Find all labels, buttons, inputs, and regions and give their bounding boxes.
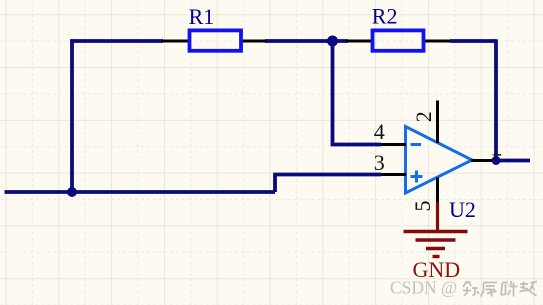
resistor R1 — [161, 30, 266, 50]
svg-text:5: 5 — [410, 201, 435, 212]
svg-text:3: 3 — [374, 150, 385, 175]
svg-text:R1: R1 — [189, 4, 215, 29]
wire: between R1 right pin and R2 left pin — [265, 39, 348, 43]
resistor R2 — [346, 30, 450, 50]
junction: R1/R2 node to pin 4 branch — [327, 36, 338, 47]
output pin — [471, 159, 492, 162]
wire: from R2 right pin to right corner — [450, 39, 496, 43]
svg-text:CSDN @: CSDN @ — [390, 278, 457, 298]
ground GND — [404, 202, 468, 257]
svg-text:R2: R2 — [372, 4, 398, 29]
svg-text:U2: U2 — [449, 197, 476, 222]
wire: bottom horizontal input net — [5, 190, 276, 194]
no-ERC marker above output node — [492, 154, 501, 156]
wire: left vertical from top corner down to bottom net — [70, 39, 74, 192]
junction: bottom net / left vertical — [67, 187, 77, 197]
op-amp U2 — [406, 127, 473, 194]
pin 5 (negative supply) — [436, 178, 439, 204]
wire: right vertical feedback down to output — [494, 39, 498, 160]
wire: top horizontal from corner to R1 left pin — [70, 39, 163, 43]
watermark CSDN — [390, 278, 537, 298]
wire: output stub to the right — [496, 159, 530, 163]
pin 3 (non-inverting input) — [381, 173, 406, 176]
wire: step up toward pin 3 — [275, 175, 381, 193]
pin 2 (positive supply) — [436, 101, 439, 144]
svg-text:4: 4 — [374, 119, 385, 144]
junction: output node — [492, 156, 501, 165]
svg-text:2: 2 — [411, 111, 436, 122]
wire: branch down from R1/R2 node to pin 4 — [333, 41, 382, 145]
pin 4 (inverting input) — [381, 143, 406, 146]
